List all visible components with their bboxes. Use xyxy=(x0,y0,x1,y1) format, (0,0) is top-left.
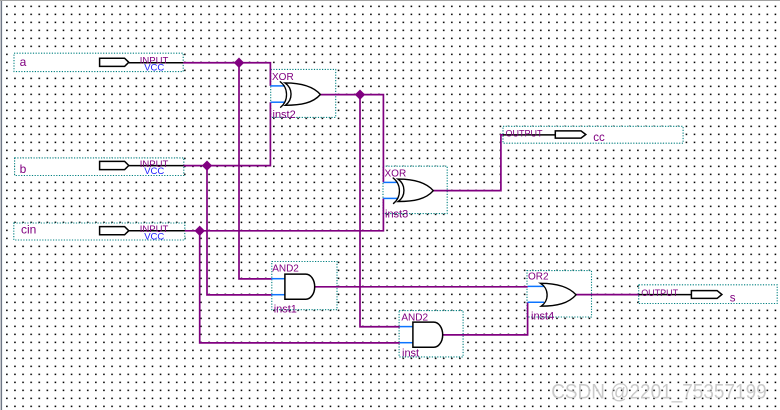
wire: net b branch down to AND inst1 bottom input xyxy=(207,166,271,295)
wire: OR inst4 output to output pin s xyxy=(576,294,640,296)
selection box: output pin s xyxy=(639,285,778,304)
svg-text:s: s xyxy=(730,293,736,305)
selection box: OR gate inst4 xyxy=(527,271,592,317)
svg-text:XOR: XOR xyxy=(385,168,407,179)
wire: XOR inst2 output to XOR inst3 top input xyxy=(320,95,384,183)
wire: net cin branch down to AND inst bottom input xyxy=(200,231,400,343)
wire: AND inst1 output to OR inst4 top input xyxy=(314,286,528,288)
selection box: input pin cin xyxy=(14,223,185,240)
svg-text:cin: cin xyxy=(21,223,36,237)
junction: net cin xyxy=(195,226,205,236)
output pin cc xyxy=(503,129,605,145)
XOR gate inst2 xyxy=(271,72,321,121)
svg-text:OR2: OR2 xyxy=(528,272,549,283)
svg-text:cc: cc xyxy=(593,132,605,144)
junction: net a xyxy=(234,58,244,68)
input pin cin xyxy=(21,223,185,243)
XOR gate inst3 xyxy=(383,168,433,220)
svg-text:inst4: inst4 xyxy=(531,311,554,323)
wire: xor1 out branch down to AND inst top input xyxy=(360,95,400,327)
output pin s xyxy=(639,288,736,304)
selection box: output pin cc xyxy=(503,126,683,143)
selection box: XOR gate inst2 xyxy=(271,69,336,117)
svg-text:inst3: inst3 xyxy=(385,208,408,220)
AND gate inst1 xyxy=(271,264,314,316)
junction: xor1 out xyxy=(355,89,365,99)
svg-text:AND2: AND2 xyxy=(272,264,299,275)
selection box: AND gate inst xyxy=(399,311,463,357)
svg-text:VCC: VCC xyxy=(144,63,164,74)
svg-text:OUTPUT: OUTPUT xyxy=(506,129,543,140)
left window border xyxy=(1,0,2,410)
svg-text:inst2: inst2 xyxy=(273,109,296,121)
svg-text:VCC: VCC xyxy=(144,166,164,177)
junction: net b xyxy=(202,160,212,170)
AND gate inst xyxy=(400,312,443,359)
wire: net cin from pin to XOR inst3 bottom input xyxy=(185,198,384,230)
svg-text:CSDN @2201_75357199: CSDN @2201_75357199 xyxy=(551,381,767,404)
wire: net b from pin to XOR inst2 bottom input xyxy=(184,102,271,165)
wire: XOR inst3 output to output pin cc xyxy=(432,135,504,191)
selection box: input pin b xyxy=(15,158,184,176)
svg-text:XOR: XOR xyxy=(272,72,294,83)
input pin b xyxy=(20,159,184,177)
svg-text:a: a xyxy=(20,55,27,69)
selection box: XOR gate inst3 xyxy=(383,166,447,213)
selection box: input pin a xyxy=(14,53,183,71)
wire: AND inst output to OR inst4 bottom input xyxy=(442,302,527,334)
svg-text:AND2: AND2 xyxy=(401,312,428,323)
input pin a xyxy=(20,55,184,74)
svg-text:inst: inst xyxy=(402,348,419,360)
svg-text:VCC: VCC xyxy=(144,231,164,242)
svg-text:b: b xyxy=(20,162,27,176)
selection box: AND gate inst1 xyxy=(272,262,337,310)
svg-text:inst1: inst1 xyxy=(274,303,297,315)
wire: net a from pin to XOR inst2 top input xyxy=(183,63,270,86)
top window border xyxy=(0,0,780,1)
svg-text:OUTPUT: OUTPUT xyxy=(641,288,678,299)
OR gate inst4 xyxy=(528,272,577,323)
wire: net a branch down to AND inst1 top input xyxy=(239,63,271,279)
